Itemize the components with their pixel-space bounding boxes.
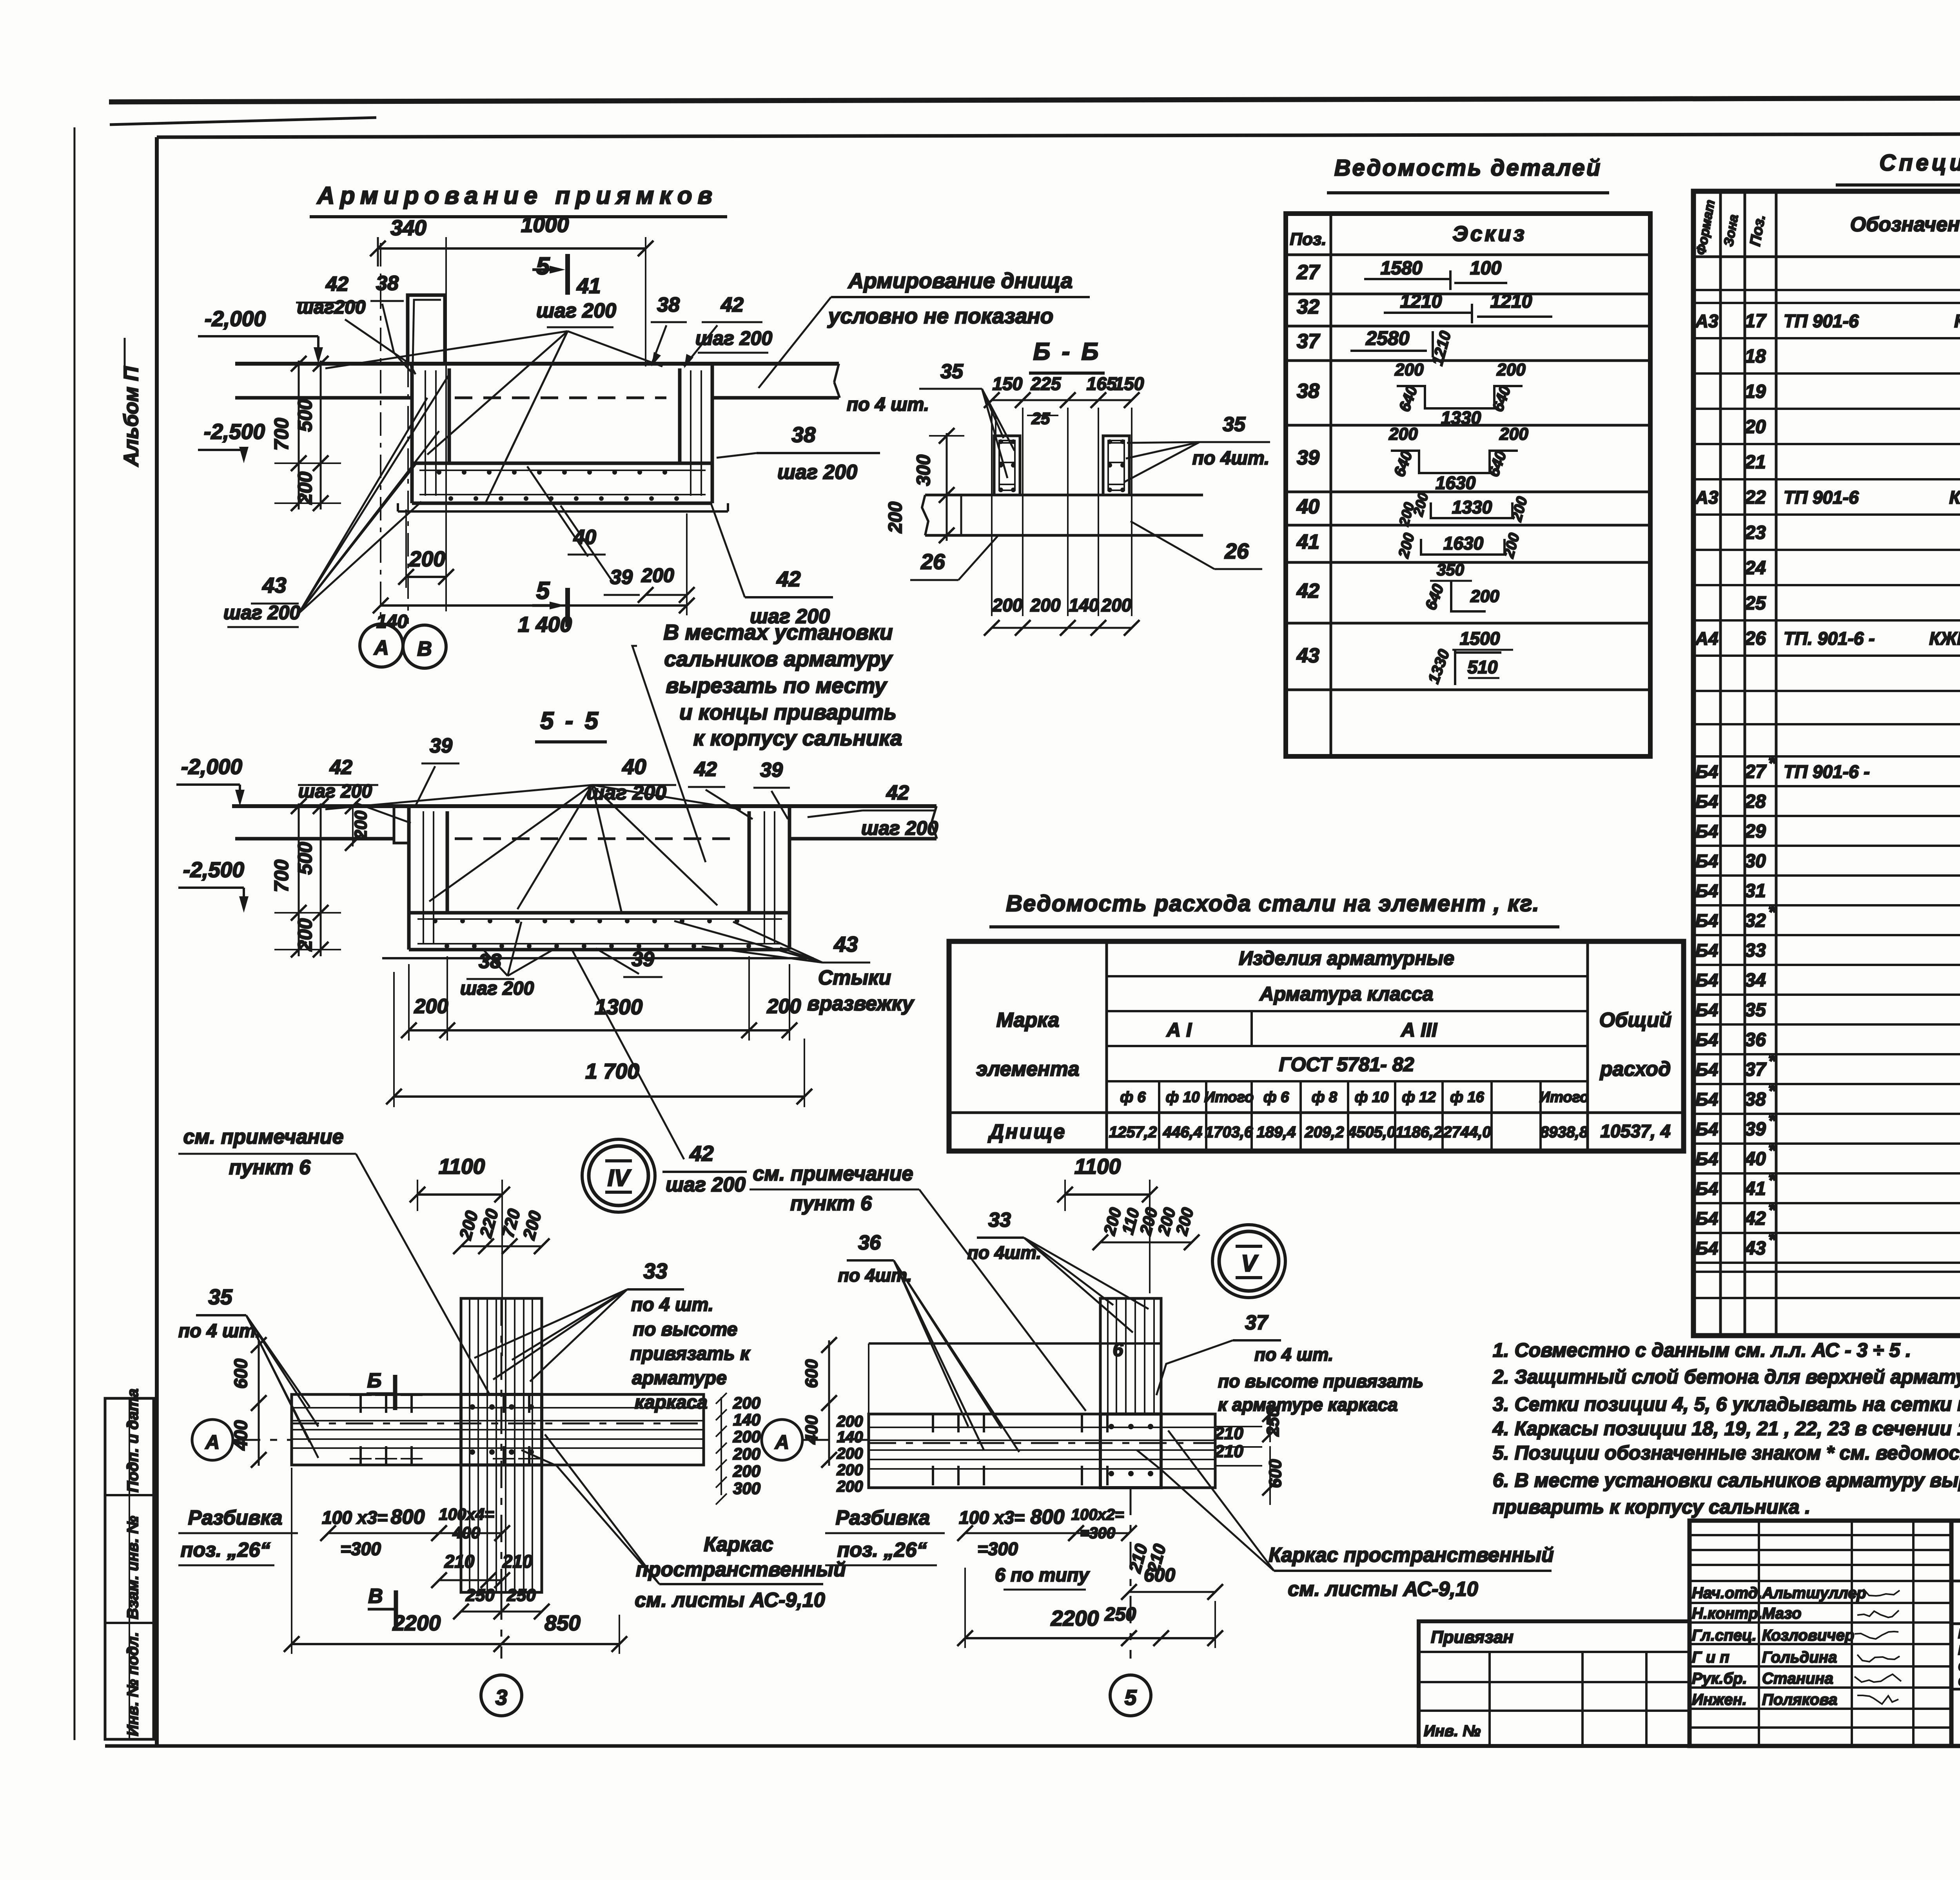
svg-text:6: 6 <box>1113 1340 1123 1360</box>
svg-text:расход: расход <box>1599 1058 1671 1081</box>
plan3 vertical band <box>461 1298 542 1592</box>
plan5 top line <box>869 1342 1161 1345</box>
svg-text:30: 30 <box>1745 851 1766 872</box>
svg-text:поз. „26“: поз. „26“ <box>837 1539 927 1561</box>
svg-text:43: 43 <box>833 932 858 956</box>
svg-text:ф 6: ф 6 <box>1120 1089 1146 1106</box>
svg-text:*: * <box>1768 1140 1777 1161</box>
svg-text:-2,500: -2,500 <box>204 419 265 444</box>
svg-text:арматуре: арматуре <box>632 1368 727 1389</box>
svg-text:43: 43 <box>262 573 286 597</box>
svg-text:2200: 2200 <box>1051 1606 1099 1630</box>
svg-text:Ведомость деталей: Ведомость деталей <box>1334 155 1602 181</box>
svg-text:Б4: Б4 <box>1695 1238 1718 1258</box>
svg-text:=300: =300 <box>977 1539 1018 1559</box>
svg-text:ТП 901-6: ТП 901-6 <box>1784 487 1859 508</box>
svg-text:*: * <box>1768 902 1777 923</box>
svg-text:и концы приварить: и концы приварить <box>679 700 897 724</box>
svg-text:шаг 200: шаг 200 <box>536 299 616 322</box>
svg-text:Марка: Марка <box>996 1009 1060 1032</box>
svg-text:21: 21 <box>1744 452 1766 473</box>
svg-text:Стыки: Стыки <box>818 966 891 989</box>
svg-text:200: 200 <box>1470 587 1499 606</box>
svg-text:18: 18 <box>1745 346 1766 367</box>
BB left column <box>994 436 1020 495</box>
5-5 concrete profile <box>232 804 936 808</box>
svg-text:IV: IV <box>608 1165 632 1191</box>
svg-text:ТП. 901-6 -: ТП. 901-6 - <box>1784 628 1875 649</box>
svg-text:Б4: Б4 <box>1695 1119 1718 1139</box>
svg-text:Б4: Б4 <box>1695 881 1718 901</box>
svg-text:400: 400 <box>802 1415 821 1445</box>
svg-text:200: 200 <box>1388 424 1418 444</box>
svg-text:приварить к корпусу сальник: приварить к корпусу сальника . <box>1493 1496 1810 1518</box>
svg-text:А: А <box>774 1431 789 1453</box>
svg-text:элемента: элемента <box>976 1058 1079 1081</box>
svg-text:250: 250 <box>506 1586 536 1605</box>
svg-text:Нач.отд.: Нач.отд. <box>1692 1584 1762 1602</box>
svg-text:Днище: Днище <box>988 1120 1067 1143</box>
svg-text:*: * <box>1768 1110 1777 1131</box>
svg-text:Инжен.: Инжен. <box>1692 1691 1747 1708</box>
svg-text:3: 3 <box>495 1685 508 1710</box>
svg-text:Гл.спец.: Гл.спец. <box>1692 1627 1757 1644</box>
plan5 crossing square <box>1100 1414 1161 1488</box>
svg-text:5: 5 <box>536 577 550 604</box>
svg-text:4505,0: 4505,0 <box>1347 1124 1396 1141</box>
svg-text:200: 200 <box>733 1462 760 1480</box>
svg-text:700: 700 <box>270 859 292 892</box>
svg-text:200: 200 <box>767 995 801 1018</box>
svg-text:210: 210 <box>444 1551 475 1572</box>
svg-text:1330: 1330 <box>1441 408 1481 428</box>
svg-text:V: V <box>1241 1250 1259 1276</box>
svg-text:Б4: Б4 <box>1695 1178 1718 1199</box>
svg-text:Б - Б: Б - Б <box>1033 338 1101 365</box>
svg-text:200: 200 <box>414 995 448 1018</box>
svg-text:210: 210 <box>1214 1442 1243 1461</box>
svg-text:В: В <box>417 638 432 660</box>
svg-text:200: 200 <box>733 1427 760 1446</box>
svg-text:*: * <box>1768 1170 1777 1191</box>
svg-text:см. листы АС-9,10: см. листы АС-9,10 <box>1288 1578 1478 1601</box>
svg-text:Б4: Б4 <box>1695 821 1718 841</box>
svg-text:600: 600 <box>1144 1565 1175 1586</box>
svg-text:по 4 шт.: по 4 шт. <box>1254 1344 1333 1365</box>
svg-text:Б4: Б4 <box>1695 1000 1718 1020</box>
drawing frame <box>157 133 1960 137</box>
svg-text:Н.контр.: Н.контр. <box>1692 1605 1762 1622</box>
svg-text:Рук.бр.: Рук.бр. <box>1692 1670 1747 1687</box>
svg-text:Б4: Б4 <box>1695 791 1718 812</box>
svg-text:140: 140 <box>733 1410 760 1429</box>
svg-text:26: 26 <box>1224 539 1249 563</box>
svg-text:300: 300 <box>913 455 934 486</box>
svg-text:43: 43 <box>1296 644 1319 667</box>
outer thin left line <box>74 127 76 1740</box>
svg-text:150: 150 <box>1114 373 1144 394</box>
svg-text:Армирование приямков: Армирование приямков <box>316 182 718 209</box>
svg-text:Общий: Общий <box>1599 1009 1672 1032</box>
svg-text:А: А <box>205 1431 220 1453</box>
plan5 circle A <box>762 1420 802 1460</box>
svg-text:*: * <box>1768 1229 1777 1250</box>
svg-text:Армирование днища: Армирование днища <box>848 268 1073 293</box>
D1 concrete profile <box>235 362 839 366</box>
svg-text:3. Сетки позиции 4, 5, 6 у: 3. Сетки позиции 4, 5, 6 укладывать на с… <box>1493 1393 1960 1415</box>
svg-text:*: * <box>1768 1081 1777 1101</box>
svg-text:Б4: Б4 <box>1695 1149 1718 1169</box>
svg-text:Б4: Б4 <box>1695 1030 1718 1050</box>
svg-text:150: 150 <box>993 373 1023 394</box>
svg-text:1. Совместно с данным см.: 1. Совместно с данным см. л.л. АС - 3 ÷ … <box>1493 1339 1911 1361</box>
grid circle IV <box>589 1146 648 1206</box>
svg-text:20: 20 <box>1744 417 1766 437</box>
svg-text:1210: 1210 <box>1400 291 1442 312</box>
svg-text:Козловичер: Козловичер <box>1762 1627 1854 1644</box>
svg-text:ф 8: ф 8 <box>1312 1089 1338 1106</box>
svg-text:Подп. и дата: Подп. и дата <box>124 1389 142 1492</box>
svg-text:41: 41 <box>1744 1178 1766 1199</box>
svg-text:850: 850 <box>544 1611 581 1635</box>
svg-text:пункт 6: пункт 6 <box>229 1156 311 1179</box>
svg-text:600: 600 <box>802 1359 821 1388</box>
svg-text:38: 38 <box>376 272 399 295</box>
svg-text:2. Защитный слой бетона дл: 2. Защитный слой бетона для верхней арма… <box>1492 1366 1960 1388</box>
svg-text:2200: 2200 <box>392 1611 441 1635</box>
svg-text:-2,000: -2,000 <box>181 754 242 779</box>
svg-text:35: 35 <box>1223 413 1246 436</box>
svg-text:по 4шт.: по 4шт. <box>1192 448 1270 469</box>
svg-text:ф 10: ф 10 <box>1166 1089 1200 1106</box>
svg-text:27: 27 <box>1744 761 1767 782</box>
svg-text:А: А <box>373 636 389 659</box>
svg-text:32: 32 <box>1745 910 1766 931</box>
svg-text:26: 26 <box>920 549 945 574</box>
grid circle A <box>360 624 403 667</box>
grid circle V <box>1219 1231 1279 1291</box>
D1 top dimensions 340 1000 <box>378 247 646 250</box>
svg-text:5: 5 <box>1125 1685 1137 1710</box>
svg-text:350: 350 <box>1437 560 1464 579</box>
svg-text:35: 35 <box>208 1285 233 1309</box>
svg-text:А4: А4 <box>1695 628 1719 649</box>
svg-text:40: 40 <box>1296 495 1319 518</box>
svg-text:5. Позиции обозначенные зна: 5. Позиции обозначенные знаком * см. вед… <box>1493 1442 1960 1464</box>
svg-text:шаг 200: шаг 200 <box>223 602 300 624</box>
svg-text:ф 16: ф 16 <box>1450 1089 1484 1106</box>
svg-text:200: 200 <box>992 595 1023 615</box>
svg-text:100 х3=: 100 х3= <box>322 1507 388 1528</box>
svg-text:200: 200 <box>1101 595 1132 615</box>
svg-text:42: 42 <box>694 758 717 781</box>
svg-text:СО СТАЛЬНЫМ КАРКАСОМ.: СО СТАЛЬНЫМ КАРКАСОМ. <box>1958 1674 1960 1689</box>
svg-text:Б: Б <box>367 1369 382 1392</box>
svg-text:4. Каркасы позиции 18, 19,: 4. Каркасы позиции 18, 19, 21 , 22, 23 в… <box>1492 1418 1960 1439</box>
D1 dashed middle line <box>455 397 666 399</box>
svg-text:шаг200: шаг200 <box>297 297 365 318</box>
svg-text:ТП 901-6 -: ТП 901-6 - <box>1784 761 1870 782</box>
svg-text:Станина: Станина <box>1762 1670 1833 1687</box>
D1 left dim chain 700 500 200 <box>298 361 300 509</box>
svg-text:42: 42 <box>325 273 348 296</box>
plan5 horizontal band <box>869 1414 1215 1488</box>
svg-text:А3: А3 <box>1695 311 1719 331</box>
svg-text:А III: А III <box>1400 1019 1437 1041</box>
svg-text:Б4: Б4 <box>1695 940 1718 961</box>
svg-text:*: * <box>1768 1200 1777 1220</box>
svg-text:446,4: 446,4 <box>1163 1124 1202 1141</box>
svg-text:10537, 4: 10537, 4 <box>1600 1121 1670 1141</box>
svg-text:200: 200 <box>1496 360 1526 379</box>
svg-text:Каркас: Каркас <box>704 1533 773 1556</box>
svg-text:200: 200 <box>837 1413 863 1430</box>
svg-text:6 по типу: 6 по типу <box>995 1565 1090 1586</box>
5-5 wall rebar <box>423 811 424 945</box>
svg-text:1257,2: 1257,2 <box>1109 1124 1157 1141</box>
svg-text:1000: 1000 <box>521 212 569 237</box>
privyazan table <box>1419 1621 1690 1746</box>
svg-text:34: 34 <box>1745 970 1766 991</box>
svg-text:Арматура класса: Арматура класса <box>1259 983 1434 1005</box>
BB left dim chain 300 200 <box>946 433 948 541</box>
svg-text:5: 5 <box>536 253 550 280</box>
left stamp column table <box>105 1398 154 1739</box>
svg-text:510: 510 <box>1468 657 1498 677</box>
svg-text:Мазо: Мазо <box>1762 1605 1801 1622</box>
svg-text:43: 43 <box>1744 1238 1766 1259</box>
svg-text:37: 37 <box>1297 330 1320 353</box>
svg-text:29: 29 <box>1744 821 1766 842</box>
title block signature table <box>1690 1521 1951 1746</box>
svg-text:2580: 2580 <box>1365 327 1409 349</box>
svg-text:1630: 1630 <box>1436 473 1476 493</box>
svg-text:200: 200 <box>1499 424 1528 444</box>
svg-text:см. примечание: см. примечание <box>753 1162 913 1185</box>
svg-text:41: 41 <box>576 274 601 298</box>
svg-text:1703,6: 1703,6 <box>1205 1124 1253 1141</box>
svg-text:*: * <box>1768 753 1777 774</box>
svg-text:200: 200 <box>294 918 316 952</box>
svg-text:по высоте: по высоте <box>633 1319 738 1340</box>
svg-text:1100: 1100 <box>1074 1154 1121 1178</box>
svg-text:35: 35 <box>940 360 964 383</box>
svg-text:6. В месте установки сальн: 6. В месте установки сальников арматуру … <box>1493 1469 1960 1491</box>
svg-text:ф 12: ф 12 <box>1402 1089 1436 1106</box>
svg-text:19: 19 <box>1745 381 1766 402</box>
svg-text:условно не показано: условно не показано <box>827 304 1053 328</box>
svg-text:42: 42 <box>1744 1208 1766 1229</box>
svg-text:39: 39 <box>610 566 633 589</box>
svg-text:500: 500 <box>294 399 316 432</box>
D1 wall rebar <box>425 370 426 496</box>
svg-text:Б4: Б4 <box>1695 851 1718 871</box>
svg-text:200: 200 <box>641 564 674 586</box>
svg-text:-2,000: -2,000 <box>205 306 266 331</box>
svg-text:пространственный: пространственный <box>636 1558 846 1581</box>
svg-text:ГОСТ 5781- 82: ГОСТ 5781- 82 <box>1279 1053 1414 1075</box>
svg-text:привязать к: привязать к <box>630 1343 751 1364</box>
svg-text:Эскиз: Эскиз <box>1452 221 1527 246</box>
svg-text:Б4: Б4 <box>1695 1089 1718 1110</box>
svg-text:209,2: 209,2 <box>1304 1124 1344 1141</box>
svg-text:225: 225 <box>1031 373 1062 394</box>
svg-text:41: 41 <box>1296 531 1319 553</box>
svg-text:ВЕНТИЛЯТОРАМИ ВГ КАПЕЛЬНАЯ: ВЕНТИЛЯТОРАМИ ВГ КАПЕЛЬНАЯ <box>1958 1643 1960 1658</box>
svg-text:по 4 шт.: по 4 шт. <box>631 1294 713 1315</box>
svg-text:2744,0: 2744,0 <box>1443 1124 1491 1141</box>
svg-text:700: 700 <box>270 418 292 451</box>
svg-text:1330: 1330 <box>1452 497 1492 517</box>
svg-text:27: 27 <box>1296 261 1320 284</box>
svg-text:В местах установки: В местах установки <box>663 620 893 644</box>
svg-text:500: 500 <box>294 842 316 875</box>
plan3 circle A <box>192 1420 233 1460</box>
svg-text:38: 38 <box>791 422 816 447</box>
svg-text:40: 40 <box>622 754 646 779</box>
svg-text:189,4: 189,4 <box>1256 1124 1296 1141</box>
svg-text:1500: 1500 <box>1460 628 1500 649</box>
svg-text:В: В <box>368 1585 383 1608</box>
svg-text:800: 800 <box>391 1506 425 1528</box>
svg-text:пункт 6: пункт 6 <box>790 1192 872 1215</box>
svg-text:8938,8: 8938,8 <box>1540 1124 1588 1141</box>
svg-text:КЖИ.1.1.02.01: КЖИ.1.1.02.01 <box>1929 628 1960 649</box>
svg-text:23: 23 <box>1744 522 1766 543</box>
svg-text:37: 37 <box>1745 1059 1767 1080</box>
svg-text:Привязан: Привязан <box>1431 1628 1514 1647</box>
svg-text:шаг 200: шаг 200 <box>666 1173 746 1196</box>
svg-text:25: 25 <box>1031 409 1050 428</box>
svg-text:42: 42 <box>720 294 744 316</box>
svg-text:сальников арматуру: сальников арматуру <box>664 647 893 671</box>
svg-text:Б4: Б4 <box>1695 761 1718 782</box>
svg-text:А3: А3 <box>1695 487 1719 508</box>
svg-text:Инв. № подл.: Инв. № подл. <box>124 1632 142 1736</box>
svg-text:Разбивка: Разбивка <box>188 1507 283 1529</box>
svg-text:1210: 1210 <box>1490 291 1532 312</box>
vedomost detaley table grid <box>1286 214 1650 756</box>
svg-text:5 - 5: 5 - 5 <box>540 707 601 734</box>
svg-text:200: 200 <box>733 1394 760 1412</box>
svg-text:1186,2: 1186,2 <box>1396 1124 1442 1141</box>
svg-text:38: 38 <box>1297 380 1319 402</box>
svg-text:200: 200 <box>1394 360 1424 379</box>
svg-text:см. листы АС-9,10: см. листы АС-9,10 <box>635 1589 825 1612</box>
svg-text:210: 210 <box>502 1551 533 1572</box>
svg-text:100 х3=: 100 х3= <box>959 1507 1025 1528</box>
svg-text:25: 25 <box>1744 593 1766 614</box>
svg-text:200: 200 <box>1030 595 1061 615</box>
BB right column <box>1103 436 1129 495</box>
svg-text:Ведомость расхода стали на: Ведомость расхода стали на элемент , кг. <box>1006 891 1540 916</box>
svg-text:200: 200 <box>837 1445 863 1462</box>
svg-text:Изделия арматурные: Изделия арматурные <box>1239 947 1454 969</box>
plan3 horizontal band <box>292 1394 704 1465</box>
plan3 crossing square <box>461 1394 542 1465</box>
svg-text:33: 33 <box>643 1259 667 1283</box>
svg-text:100х4=: 100х4= <box>439 1505 494 1523</box>
svg-text:42: 42 <box>329 756 352 779</box>
svg-text:42: 42 <box>886 781 909 804</box>
svg-text:39: 39 <box>760 759 783 781</box>
svg-text:340: 340 <box>390 216 426 240</box>
steel table grid <box>949 941 1684 1151</box>
svg-text:Б4: Б4 <box>1695 1059 1718 1080</box>
svg-text:Альбом П: Альбом П <box>120 366 143 467</box>
svg-text:37: 37 <box>1245 1311 1269 1334</box>
svg-text:38: 38 <box>479 950 501 973</box>
svg-text:КЖИ. 1.1.02: КЖИ. 1.1.02 <box>1949 487 1960 508</box>
svg-text:300: 300 <box>733 1479 760 1497</box>
svg-text:*: * <box>1768 1051 1777 1071</box>
svg-text:по 4 шт.: по 4 шт. <box>847 394 929 415</box>
svg-text:140: 140 <box>1069 595 1099 615</box>
D1 axis lines <box>380 243 381 621</box>
svg-text:36: 36 <box>858 1231 881 1254</box>
svg-text:см. примечание: см. примечание <box>183 1126 344 1148</box>
svg-text:200: 200 <box>409 547 445 571</box>
svg-text:24: 24 <box>1744 558 1766 578</box>
svg-text:к арматуре каркаса: к арматуре каркаса <box>1218 1394 1398 1415</box>
svg-text:С СЕКЦИЯМИ ПЛОЩАДЬЮ 192 М²: С СЕКЦИЯМИ ПЛОЩАДЬЮ 192 М² <box>1958 1659 1960 1674</box>
svg-text:36: 36 <box>1745 1030 1766 1050</box>
svg-text:1630: 1630 <box>1443 533 1484 553</box>
svg-text:31: 31 <box>1745 881 1766 901</box>
svg-text:А I: А I <box>1166 1019 1192 1041</box>
svg-text:800: 800 <box>1031 1506 1065 1528</box>
BB floor band <box>925 494 1203 497</box>
svg-text:33: 33 <box>988 1209 1011 1231</box>
node circle 3 <box>481 1675 522 1716</box>
svg-text:=300: =300 <box>340 1539 381 1559</box>
svg-text:140: 140 <box>837 1429 863 1446</box>
svg-text:1580: 1580 <box>1381 258 1423 279</box>
svg-text:шаг 200: шаг 200 <box>861 817 938 839</box>
sheet top edge line <box>109 97 1960 102</box>
svg-text:1 400: 1 400 <box>518 612 572 636</box>
svg-text:100х2=: 100х2= <box>1071 1506 1124 1523</box>
svg-text:165: 165 <box>1087 373 1117 394</box>
svg-text:Итого: Итого <box>1204 1089 1254 1106</box>
svg-text:33: 33 <box>1745 940 1766 961</box>
svg-text:ф 10: ф 10 <box>1355 1089 1388 1106</box>
svg-text:38: 38 <box>657 294 680 316</box>
svg-text:-2,500: -2,500 <box>183 858 244 882</box>
svg-text:1300: 1300 <box>595 995 643 1019</box>
svg-text:Поз.: Поз. <box>1290 230 1326 249</box>
svg-text:шаг 200: шаг 200 <box>777 461 857 484</box>
svg-text:Инв. №: Инв. № <box>1424 1722 1481 1740</box>
svg-text:Взам. инв. №: Взам. инв. № <box>124 1516 142 1619</box>
svg-text:Б4: Б4 <box>1695 970 1718 990</box>
svg-text:42: 42 <box>689 1141 714 1166</box>
svg-text:Альтшуллер: Альтшуллер <box>1762 1584 1866 1602</box>
svg-text:Б4: Б4 <box>1695 1208 1718 1229</box>
svg-text:ГРАДИРНЯ ДВУХСЕКЦИОННАЯ С: ГРАДИРНЯ ДВУХСЕКЦИОННАЯ С <box>1958 1626 1960 1641</box>
title block right part <box>1951 1521 1960 1746</box>
grid circle B <box>403 625 446 668</box>
svg-text:ф 6: ф 6 <box>1263 1089 1289 1106</box>
svg-text:КЖИ.1.1.01: КЖИ.1.1.01 <box>1954 311 1960 331</box>
5-5 left dim chain <box>298 803 300 956</box>
svg-text:200: 200 <box>351 810 370 840</box>
svg-text:250: 250 <box>465 1586 495 1605</box>
svg-text:по 4 шт.: по 4 шт. <box>178 1321 261 1342</box>
node circle 5 <box>1110 1675 1151 1716</box>
spec header <box>1693 256 1960 258</box>
svg-text:вразвежку: вразвежку <box>807 992 915 1015</box>
